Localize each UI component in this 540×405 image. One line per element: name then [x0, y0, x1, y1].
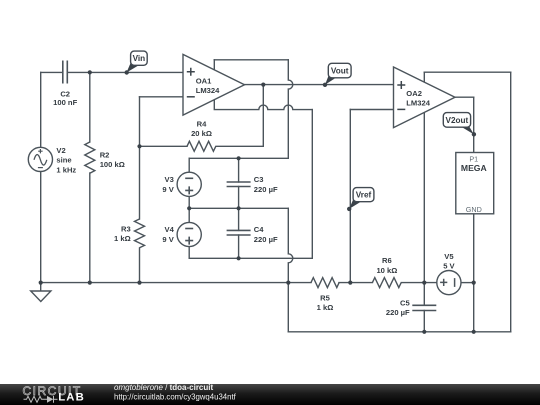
label R5 value — [317, 294, 334, 312]
node junction ground at R3 — [137, 281, 141, 285]
label C3 value — [254, 175, 278, 194]
svg-text:P1: P1 — [469, 154, 478, 163]
capacitor C3 — [227, 182, 251, 187]
svg-text:R3: R3 — [121, 225, 131, 234]
wire V2 column lower — [40, 172, 42, 283]
wire V5 right lead — [461, 282, 474, 284]
wire OA1 top power pin stub — [213, 60, 215, 71]
svg-text:10 kΩ: 10 kΩ — [376, 266, 397, 275]
label V5 value — [443, 252, 455, 271]
svg-text:http://circuitlab.com/cy3gwq4u: http://circuitlab.com/cy3gwq4u34ntf — [114, 393, 237, 402]
svg-text:5 V: 5 V — [443, 262, 455, 271]
op-amp OA2 — [394, 67, 456, 128]
node Vref junction — [348, 281, 352, 285]
flag Vout — [323, 63, 351, 87]
node junction C4 bottom — [237, 256, 241, 260]
wire V2 column upper — [40, 72, 42, 147]
flag Vin — [125, 51, 148, 75]
node junction R4 left — [137, 144, 141, 148]
voltage source V3 — [177, 172, 201, 196]
label R4 value — [191, 119, 212, 138]
node Vout junction at feedback — [261, 83, 265, 87]
wire OA2 output horizontal — [455, 96, 474, 98]
wire V3 top rail — [189, 157, 288, 159]
svg-text:omgtoblerone / tdoa-circuit: omgtoblerone / tdoa-circuit — [114, 383, 213, 392]
label R2 value — [100, 150, 125, 169]
wire Vref vertical to OA2 minus — [349, 110, 351, 283]
wire V4 top lead — [188, 208, 190, 222]
node junction C3 top — [237, 156, 241, 160]
footer CircuitLab logo resistor-diode icon — [24, 396, 58, 403]
svg-text:LM324: LM324 — [196, 86, 220, 95]
wire R2 bottom lead — [89, 173, 91, 283]
svg-text:R2: R2 — [100, 150, 110, 159]
svg-text:Vout: Vout — [331, 67, 349, 76]
wire C5 top lead — [423, 283, 425, 306]
wire midpoint to ground rail with hop over V4 rail — [288, 208, 292, 282]
svg-text:1 kΩ: 1 kΩ — [114, 234, 131, 243]
svg-text:9 V: 9 V — [162, 185, 174, 194]
capacitor C4 — [227, 230, 251, 235]
svg-text:OA1: OA1 — [196, 76, 212, 85]
svg-text:220 µF: 220 µF — [254, 185, 278, 194]
wire bottom rail — [288, 331, 510, 333]
svg-text:OA2: OA2 — [406, 89, 422, 98]
wire V4 bottom rail — [189, 257, 312, 259]
wire OA2 top pin vertical down to 5V node — [423, 72, 425, 282]
svg-text:R5: R5 — [320, 294, 330, 303]
svg-text:220 µF: 220 µF — [254, 235, 278, 244]
svg-text:R4: R4 — [197, 119, 207, 128]
resistor R2 — [85, 142, 95, 173]
wire ground rail left section — [41, 282, 311, 284]
node junction ground at V2 — [39, 281, 43, 285]
svg-text:Vin: Vin — [133, 54, 146, 63]
wire OA1 bottom power pin horizontal with hops — [214, 100, 312, 110]
node junction V3-V4 midpoint — [187, 206, 191, 210]
svg-text:sine: sine — [56, 156, 71, 165]
wire OA1 output to OA2 plus input (node Vout) — [245, 84, 394, 86]
resistor R6 — [372, 278, 401, 288]
wire OA2 top power rail horizontal — [424, 71, 510, 73]
resistor R3 — [135, 219, 145, 248]
label V3 value — [162, 175, 174, 194]
label R3 value — [114, 225, 131, 244]
svg-text:V2out: V2out — [446, 116, 469, 125]
wire OA2 minus input horizontal — [350, 109, 393, 111]
label V2 value — [56, 146, 76, 175]
wire mid supply rail (node common) — [189, 207, 288, 209]
wire MEGA GND node to bottom rail — [473, 283, 475, 332]
svg-text:9 V: 9 V — [162, 235, 174, 244]
wire C3 bottom lead — [238, 187, 240, 209]
wire OA1 top power vertical with hop over Vout wire — [288, 60, 293, 159]
svg-text:220 µF: 220 µF — [386, 308, 410, 317]
node Vin junction at R2 — [88, 70, 92, 74]
wire C2 to OA1 plus input (node Vin) — [67, 71, 183, 73]
svg-text:V2: V2 — [56, 146, 65, 155]
wire V3 bottom lead — [188, 196, 190, 208]
wire C4 top lead — [238, 208, 240, 230]
wire OA1 bottom power vertical to V4 rail — [311, 110, 313, 259]
svg-text:C4: C4 — [254, 225, 264, 234]
label C2 value — [53, 90, 77, 108]
wire V3 top lead — [188, 158, 190, 172]
wire feedback vertical R4 to OA1 output — [262, 85, 264, 147]
wire OA1 top power rail horizontal — [214, 59, 288, 61]
svg-text:V5: V5 — [444, 252, 454, 261]
node junction ground at R2 — [88, 281, 92, 285]
op-amp OA1 — [183, 54, 245, 115]
label V4 value — [162, 225, 174, 244]
wire C3 top lead — [238, 158, 240, 182]
flag Vref — [347, 188, 374, 211]
svg-text:Vref: Vref — [356, 191, 372, 200]
ground — [31, 283, 51, 302]
label R6 value — [376, 256, 397, 275]
node junction GND drop bottom rail — [472, 330, 476, 334]
wire OA1 minus input horizontal — [140, 96, 184, 98]
wire C5 bottom lead — [423, 311, 425, 332]
svg-text:MEGA: MEGA — [461, 163, 487, 173]
svg-text:1 kΩ: 1 kΩ — [317, 303, 334, 312]
wire R4 right lead to feedback — [216, 145, 263, 147]
wire MEGA GND pin down — [473, 214, 475, 283]
wire top-left to C2 — [41, 71, 63, 73]
wire R6 to V5 plus node — [401, 282, 437, 284]
svg-text:20 kΩ: 20 kΩ — [191, 129, 212, 138]
flag V2out — [443, 113, 476, 137]
wire V4 bottom lead — [188, 247, 190, 259]
wire midpoint node down to bottom rail — [287, 283, 289, 332]
svg-text:100 kΩ: 100 kΩ — [100, 160, 125, 169]
svg-text:V4: V4 — [165, 225, 175, 234]
svg-text:GND: GND — [466, 205, 482, 214]
wire R5 to R6 (node Vref) — [339, 282, 372, 284]
svg-text:LAB: LAB — [58, 391, 85, 403]
wire R2 top lead — [89, 72, 91, 142]
svg-text:LM324: LM324 — [406, 98, 430, 107]
resistor R5 — [311, 278, 339, 288]
svg-text:100 nF: 100 nF — [53, 98, 77, 107]
voltage source V4 — [177, 222, 201, 246]
svg-text:1 kHz: 1 kHz — [56, 165, 76, 174]
wire R4 left lead — [140, 145, 188, 147]
capacitor C2 — [63, 61, 68, 84]
node junction ground at midpoint drop — [286, 281, 290, 285]
svg-text:R6: R6 — [382, 256, 392, 265]
voltage source V2 sine — [28, 147, 52, 171]
footer bar — [0, 384, 540, 405]
connector P1 MEGA box — [456, 153, 494, 214]
label C4 value — [254, 225, 278, 244]
capacitor C5 — [412, 305, 436, 310]
node junction C5 bottom rail — [422, 330, 426, 334]
node 5V junction — [422, 281, 426, 285]
wire OA1 minus input vertical to R4/R3 node — [139, 97, 141, 219]
svg-text:C5: C5 — [400, 299, 410, 308]
node junction V5 right — [472, 281, 476, 285]
wire OA2 output down to MEGA (node V2out) — [473, 97, 475, 152]
label C5 value — [386, 299, 411, 317]
node junction C3-C4 mid — [237, 206, 241, 210]
svg-text:V3: V3 — [165, 175, 174, 184]
voltage source V5 — [437, 271, 461, 295]
resistor R4 — [187, 141, 216, 151]
wire R3 bottom lead — [139, 248, 141, 283]
svg-text:C3: C3 — [254, 175, 264, 184]
wire C4 bottom lead — [238, 235, 240, 258]
wire OA2 power right vertical — [510, 72, 512, 332]
